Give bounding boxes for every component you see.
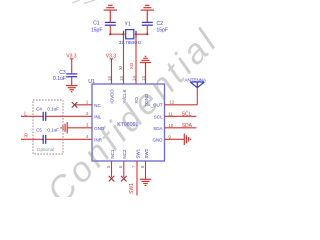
wire crystal right to pin 14 [135, 34, 137, 84]
capacitor C2 [142, 22, 153, 25]
capacitor C1 [105, 22, 116, 25]
svg-text:C3: C3 [59, 70, 66, 76]
svg-text:SW2: SW2 [144, 148, 149, 158]
svg-text:NC: NC [94, 103, 101, 108]
svg-text:C4: C4 [36, 106, 42, 111]
junction at C2 corner [146, 33, 148, 35]
svg-text:16: 16 [107, 76, 112, 81]
pin 2 wire and number [46, 115, 92, 117]
svg-text:GND: GND [153, 137, 164, 142]
svg-text:11: 11 [168, 111, 173, 116]
svg-text:C5: C5 [36, 127, 42, 132]
svg-text:INL: INL [94, 114, 102, 119]
no-connect X pin 5 [109, 176, 115, 182]
svg-text:SW1: SW1 [135, 148, 140, 158]
svg-text:SW1: SW1 [129, 183, 135, 194]
pin 5 wire and number [111, 161, 113, 177]
svg-text:Y1: Y1 [125, 22, 131, 28]
pin 3 wire and number [67, 127, 92, 129]
crystal Y1 [124, 30, 137, 39]
svg-text:0.1uF: 0.1uF [53, 76, 66, 82]
svg-text:IOVDD: IOVDD [110, 89, 115, 104]
junction at crystal right / XO [135, 33, 137, 35]
pin 4 wire and number [46, 138, 92, 140]
optional dashed box [33, 100, 63, 154]
capacitor C3 [66, 74, 77, 77]
svg-text:32.768KHz: 32.768KHz [119, 40, 142, 45]
pin 10 wire, number, SDA label [165, 127, 197, 129]
ground on pin 13 (pointing up) [140, 56, 151, 84]
svg-text:0.1uF: 0.1uF [47, 106, 59, 111]
ground on pin 9 (pointing right) [184, 134, 190, 145]
svg-text:10: 10 [168, 123, 173, 128]
svg-text:Optional: Optional [37, 147, 54, 152]
watermark fragment top edge [72, 0, 95, 4]
wire C2 down to crystal net [146, 25, 148, 34]
pin 7 wire and number [136, 161, 138, 196]
antenna symbol [190, 82, 204, 88]
wire C3 to ground [71, 77, 73, 86]
ground on pin 8 (pointing down) [140, 179, 151, 185]
power V3.3 symbol above C1 [104, 5, 117, 22]
svg-text:SCL: SCL [182, 112, 192, 118]
no-connect X pin 6 [121, 176, 127, 182]
no-connect X pin 1 [72, 102, 78, 108]
pin 6 wire and number [123, 161, 125, 177]
capacitor C5 [43, 135, 46, 144]
svg-text:0.1uF: 0.1uF [47, 127, 59, 132]
ground below C3 [66, 86, 77, 92]
svg-text:15pF: 15pF [91, 27, 102, 33]
chip U1 body [92, 84, 165, 161]
junction at C1 corner [109, 33, 111, 35]
svg-text:15: 15 [119, 76, 124, 81]
svg-text:SDA: SDA [182, 123, 193, 129]
svg-text:14: 14 [131, 76, 136, 81]
svg-text:C1: C1 [93, 20, 100, 26]
wire C1 down to crystal net [109, 25, 111, 34]
capacitor C4 [43, 112, 46, 121]
wire crystal left to pin 15 [123, 34, 125, 84]
junction at crystal left / XI [122, 33, 124, 35]
svg-text:XO: XO [129, 62, 134, 69]
svg-text:U1: U1 [88, 79, 95, 85]
pin 8 wire and number [145, 161, 147, 179]
wire up to antenna [196, 88, 198, 105]
svg-text:SDA: SDA [153, 126, 162, 131]
svg-text:15pF: 15pF [157, 27, 168, 33]
power V3.3 symbol above C2 [141, 5, 154, 22]
svg-text:C2: C2 [157, 21, 164, 27]
ground on pin 3 (pointing left) [61, 122, 67, 133]
pin 12 wire and number [165, 104, 198, 106]
pin 9 wire and number [165, 138, 185, 140]
pin 11 wire, number, SCL label [165, 115, 197, 117]
pin 1 wire and number [75, 104, 93, 106]
svg-text:XI: XI [118, 66, 123, 70]
